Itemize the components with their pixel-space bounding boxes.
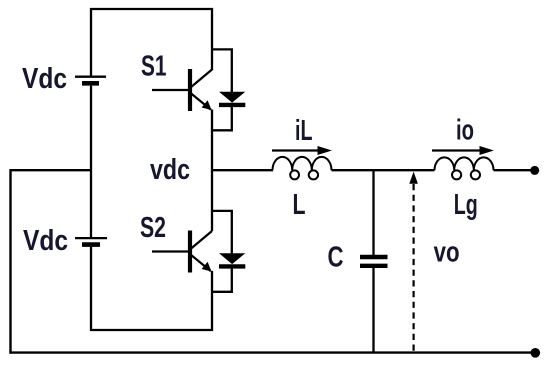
node output terminal bottom [531, 348, 541, 358]
transistor Q1 collector diagonal [191, 70, 213, 88]
node output terminal top [530, 166, 539, 175]
wire battery column lower segment [90, 247, 92, 331]
transistor Q2 emitter diagonal [191, 255, 211, 272]
wire mid rail from bridge to inductor L [213, 169, 273, 171]
transistor Q1 bar [188, 69, 192, 111]
inductor L arcs [273, 157, 332, 170]
capacitor C top plate [360, 255, 388, 259]
arrow vo head [409, 172, 418, 184]
inductor Lg arcs [435, 157, 494, 170]
inductor Lg loop 2 [471, 170, 480, 179]
wire diode D1 branch [212, 49, 232, 130]
svg-text:io: io [456, 115, 474, 147]
svg-text:Vdc: Vdc [22, 63, 67, 95]
transistor Q1 emitter arrow [202, 100, 212, 110]
capacitor C bottom plate [360, 264, 388, 268]
battery B2 short plate [82, 242, 100, 247]
wire from Lg to output terminal [494, 169, 532, 171]
arrow io [432, 149, 482, 151]
svg-text:L: L [293, 189, 306, 221]
transistor Q1 base lead [152, 89, 188, 91]
svg-text:Vdc: Vdc [23, 225, 68, 257]
wire capacitor top branch [372, 170, 374, 255]
transistor Q2 emitter arrow [202, 262, 212, 272]
diode D2 triangle [219, 253, 245, 264]
svg-text:vdc: vdc [150, 154, 190, 186]
wire mid rail from L to Lg [332, 169, 435, 171]
svg-text:S2: S2 [140, 212, 166, 244]
wire right column bottom segment [211, 271, 213, 331]
wire diode D2 branch [212, 211, 232, 292]
wire bottom rail of bridge [90, 329, 213, 331]
wire right column top segment [211, 8, 213, 70]
battery B2 long plate [75, 237, 107, 239]
svg-text:vo: vo [434, 237, 460, 269]
transistor Q2 base lead [152, 250, 188, 252]
wire bottom outer rail [9, 351, 531, 353]
diode D1 cathode bar [219, 103, 245, 107]
svg-text:Lg: Lg [454, 189, 478, 221]
battery B1 long plate [75, 76, 106, 78]
wire neutral link to battery midpoint [10, 169, 91, 171]
inductor L loop 2 [309, 170, 318, 179]
svg-text:C: C [328, 242, 344, 274]
diode D2 cathode bar [219, 264, 245, 268]
wire right column middle segment [211, 110, 213, 232]
arrow iL [272, 149, 320, 151]
transistor Q2 bar [188, 231, 192, 273]
svg-text:S1: S1 [141, 51, 167, 83]
wire capacitor bottom branch [372, 268, 374, 353]
battery B1 short plate [82, 81, 99, 86]
diode D1 triangle [219, 92, 245, 103]
transistor Q1 emitter diagonal [191, 93, 211, 110]
wire top rail of bridge [90, 8, 213, 10]
dashed line vo [413, 184, 415, 352]
inductor Lg loop 1 [452, 170, 461, 179]
wire battery column middle segment [90, 86, 92, 238]
inductor L loop 1 [290, 170, 299, 179]
wire left battery column upper segment [90, 8, 92, 76]
svg-text:iL: iL [295, 115, 313, 147]
wire left outer vertical rail [9, 169, 11, 354]
transistor Q2 collector diagonal [191, 231, 213, 249]
